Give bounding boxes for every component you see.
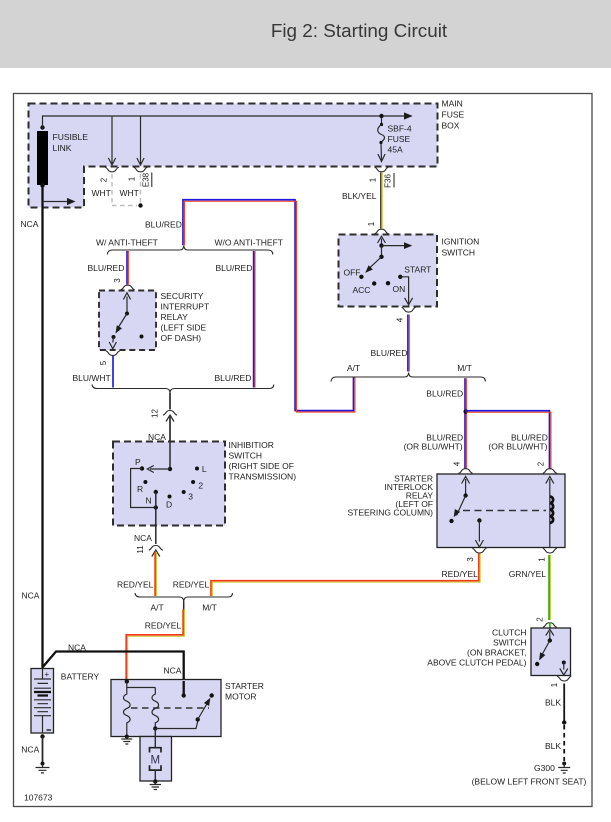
svg-text:ACC: ACC — [353, 285, 371, 295]
inhibitor: D contact — [166, 495, 172, 510]
svg-text:IGNITION: IGNITION — [442, 237, 480, 247]
interlock relay: switch lever — [449, 477, 469, 524]
pin 2 connector (clutch switch top) — [536, 617, 557, 628]
svg-text:GRN/YEL: GRN/YEL — [509, 569, 547, 579]
battery — [31, 669, 100, 734]
svg-text:4: 4 — [396, 317, 405, 322]
wire BLU/RED A/T branch: down, left, up long riser, left, down to anti-theft brace — [145, 200, 355, 412]
wire NCA battery negative — [21, 734, 44, 761]
svg-text:BLU/RED: BLU/RED — [145, 220, 182, 230]
svg-text:F36: F36 — [384, 174, 393, 188]
wire below inhibitor to pin 11 — [134, 526, 156, 545]
svg-text:RED/YEL: RED/YEL — [117, 580, 154, 590]
wire: fusible link to bus bar with right arrow — [43, 112, 413, 127]
svg-text:L: L — [202, 464, 207, 474]
wire BLU/WHT security relay to rejoin brace — [73, 356, 114, 388]
svg-text:2: 2 — [537, 461, 546, 466]
security relay: internal switch — [109, 293, 143, 349]
starter motor: pull-in coil — [124, 679, 156, 736]
ignition: START contact and output to pin 4 — [398, 265, 431, 305]
pin 1 connector (fuse box / E38) — [128, 167, 152, 187]
fuse SBF-4 45A — [378, 118, 412, 162]
ignition: entry arrow up — [378, 236, 386, 248]
svg-text:STARTER: STARTER — [225, 681, 264, 691]
pin 2 connector (interlock relay top) — [537, 461, 557, 473]
svg-text:OFF: OFF — [344, 268, 361, 278]
svg-text:5: 5 — [99, 360, 108, 365]
svg-text:MOTOR: MOTOR — [225, 692, 256, 702]
brace: W/ ANTI-THEFT / W/O ANTI-THEFT split — [96, 238, 283, 255]
wire NCA battery positive (long left riser) — [21, 187, 43, 669]
wire WHT (NCA, dashed gray) pin 1 — [112, 174, 143, 208]
svg-text:ABOVE CLUTCH PEDAL): ABOVE CLUTCH PEDAL) — [427, 658, 526, 668]
wire BLU/RED (OR BLU/WHT) M/T branch to interlock relay pin 4 — [404, 378, 468, 468]
svg-text:1: 1 — [128, 176, 137, 181]
svg-text:OF DASH): OF DASH) — [161, 333, 202, 343]
svg-text:N: N — [146, 496, 152, 506]
svg-text:BLK: BLK — [545, 698, 561, 708]
starter motor: hold coil to motor — [152, 688, 159, 731]
interlock relay: output arrow to pin 3 — [475, 518, 483, 547]
svg-text:RELAY: RELAY — [161, 312, 189, 322]
svg-text:1: 1 — [538, 557, 547, 562]
svg-text:4: 4 — [453, 461, 462, 466]
svg-text:3: 3 — [466, 557, 475, 562]
pin 3 connector (interlock relay bottom) — [466, 548, 486, 561]
node: bus junction at SBF-4 — [379, 114, 383, 118]
main fuse box — [29, 99, 465, 208]
svg-text:RED/YEL: RED/YEL — [442, 569, 479, 579]
svg-text:BLU/WHT: BLU/WHT — [73, 373, 111, 383]
inhibitor: P contact and linkage bracket — [131, 457, 156, 508]
svg-text:SBF-4: SBF-4 — [388, 124, 412, 134]
ignition: feed arrow right — [382, 242, 413, 249]
pin 2 connector (fuse box / E38) — [100, 167, 120, 182]
svg-text:NCA: NCA — [21, 745, 39, 755]
svg-text:FUSE: FUSE — [442, 110, 465, 120]
clutch switch: lever — [535, 629, 554, 666]
pin 3 connector (security relay top) — [113, 278, 135, 290]
svg-text:MAIN: MAIN — [442, 99, 463, 109]
motor M symbol — [150, 748, 162, 781]
ground (starter motor case) — [121, 735, 132, 745]
svg-text:(BELOW LEFT FRONT SEAT): (BELOW LEFT FRONT SEAT) — [472, 777, 587, 787]
ignition: ON contact — [386, 281, 405, 294]
svg-text:+: + — [45, 670, 50, 679]
svg-text:M/T: M/T — [202, 603, 217, 613]
svg-text:107673: 107673 — [24, 793, 53, 803]
svg-text:P: P — [135, 457, 141, 467]
inline connector pin 11 — [136, 545, 163, 557]
svg-text:G300: G300 — [534, 763, 555, 773]
svg-text:CLUTCH: CLUTCH — [492, 628, 526, 638]
starter motor: NCA stub — [182, 681, 186, 698]
inline connector pin 12 — [148, 409, 177, 442]
inhibitor: 2 contact — [191, 480, 203, 491]
inhibitor: N output line — [146, 490, 159, 526]
svg-text:INHIBITIOR: INHIBITIOR — [229, 440, 274, 450]
svg-text:SWITCH: SWITCH — [493, 638, 527, 648]
starter motor — [111, 680, 264, 737]
ground (motor) — [150, 779, 161, 789]
brace: A/T / M/T split under ignition switch — [331, 363, 485, 382]
wire RED/YEL M/T branch to starter interlock relay pin 3 — [173, 554, 480, 597]
svg-text:BLU/RED: BLU/RED — [371, 348, 408, 358]
svg-text:D: D — [166, 500, 172, 510]
pin 4 connector (interlock relay top) — [453, 461, 473, 473]
wire NCA battery to starter motor — [43, 643, 184, 682]
clutch switch — [427, 628, 570, 676]
motor M assembly box — [140, 729, 172, 782]
svg-text:FUSIBLE: FUSIBLE — [53, 132, 89, 142]
svg-text:45A: 45A — [388, 145, 403, 155]
svg-text:1: 1 — [367, 221, 376, 226]
clutch switch: output arrow to pin 1 — [560, 661, 568, 676]
arrow: fusible link output inside fuse box — [43, 198, 76, 205]
svg-text:W/O ANTI-THEFT: W/O ANTI-THEFT — [215, 238, 283, 248]
svg-text:INTERRUPT: INTERRUPT — [161, 302, 210, 312]
svg-text:2: 2 — [198, 481, 203, 491]
interlock relay: coil to pin 1 — [546, 477, 554, 548]
svg-text:BLU/RED: BLU/RED — [88, 263, 125, 273]
svg-text:(RIGHT SIDE OF: (RIGHT SIDE OF — [229, 461, 295, 471]
ground (battery) — [36, 762, 50, 773]
svg-text:BLK/YEL: BLK/YEL — [342, 191, 377, 201]
ignition: OFF contact — [344, 268, 364, 279]
svg-text:3: 3 — [188, 492, 193, 502]
ignition: ACC contact — [353, 281, 377, 295]
inhibitor: 3 contact — [182, 490, 194, 502]
svg-text:WHT: WHT — [120, 188, 139, 198]
security interrupt relay — [99, 291, 209, 351]
svg-text:A/T: A/T — [151, 603, 164, 613]
svg-text:E38: E38 — [142, 172, 151, 187]
brace: A/T / M/T rejoin above starter motor — [135, 593, 233, 613]
svg-text:NCA: NCA — [164, 666, 182, 676]
svg-text:BLK: BLK — [545, 741, 561, 751]
svg-text:1: 1 — [550, 682, 559, 687]
svg-text:LINK: LINK — [53, 143, 72, 153]
brace: anti-theft rejoin — [92, 385, 274, 410]
svg-text:BLU/RED: BLU/RED — [216, 263, 253, 273]
wire BLK dashed to ground — [545, 725, 564, 761]
ignition switch — [339, 235, 480, 307]
wire WHT (NCA, dashed gray) pin 2 — [92, 174, 113, 206]
svg-text:RED/YEL: RED/YEL — [173, 580, 210, 590]
svg-text:SECURITY: SECURITY — [161, 291, 204, 301]
svg-text:R: R — [137, 484, 143, 494]
pin 1 connector F36 (below fuse box) — [369, 167, 395, 188]
svg-text:SWITCH: SWITCH — [442, 248, 476, 258]
svg-text:WHT: WHT — [92, 188, 111, 198]
starter motor: mechanical dashed link — [131, 707, 209, 709]
svg-text:FUSE: FUSE — [388, 134, 411, 144]
svg-text:BLU/RED: BLU/RED — [426, 389, 463, 399]
pin 4 connector (ignition switch bottom) — [396, 307, 416, 322]
wire: drop to connector 2 — [108, 116, 115, 165]
svg-text:A/T: A/T — [347, 363, 360, 373]
header band — [0, 0, 611, 68]
svg-text:2: 2 — [536, 617, 545, 622]
wire: drop to connector 1 (E38) — [137, 116, 144, 165]
wire BLK clutch switch down — [545, 684, 566, 725]
inhibitor: R contact — [137, 480, 147, 494]
interlock relay: mechanical dashed link — [463, 510, 546, 512]
svg-text:NCA: NCA — [22, 591, 40, 601]
wire BLU/RED W/O ANTI-THEFT branch — [215, 251, 256, 388]
fusible link — [37, 125, 88, 187]
svg-text:BOX: BOX — [442, 121, 460, 131]
svg-text:(ON BRACKET,: (ON BRACKET, — [467, 648, 527, 658]
svg-text:NCA: NCA — [21, 219, 39, 229]
inhibitor: entry wire and arrow to P — [147, 442, 172, 473]
svg-text:NCA: NCA — [134, 533, 152, 543]
wire BLU/RED ignition pin4 to A/T-M/T brace — [371, 315, 410, 372]
svg-text:12: 12 — [151, 409, 160, 418]
svg-text:STEERING COLUMN): STEERING COLUMN) — [348, 508, 434, 518]
svg-text:11: 11 — [136, 545, 145, 554]
svg-text:RED/YEL: RED/YEL — [145, 621, 182, 631]
svg-text:NCA: NCA — [68, 643, 86, 653]
svg-text:(OR BLU/WHT): (OR BLU/WHT) — [488, 442, 547, 452]
wire BLK/YEL fuse to ignition switch — [342, 173, 382, 229]
svg-text:SWITCH: SWITCH — [229, 451, 263, 461]
svg-text:BATTERY: BATTERY — [61, 672, 100, 682]
wire RED/YEL inhibitor pin 11 to A/T brace — [117, 552, 157, 596]
svg-text:(LEFT SIDE: (LEFT SIDE — [161, 323, 207, 333]
inhibitor: L contact — [195, 464, 207, 474]
pin 1 connector (interlock relay bottom) — [538, 548, 557, 561]
pin 5 connector (security relay bottom) — [99, 351, 120, 365]
svg-text:(OR BLU/WHT): (OR BLU/WHT) — [404, 442, 463, 452]
pin 1 connector (clutch switch bottom) — [550, 676, 571, 687]
svg-text:M/T: M/T — [457, 363, 472, 373]
inhibitor switch — [113, 440, 296, 526]
ground G300 — [472, 762, 587, 787]
wire RED/YEL brace to starter motor — [126, 610, 184, 682]
wire BLU/RED to security relay pin 3 — [88, 251, 129, 285]
wire GRN/YEL interlock relay to clutch switch — [509, 555, 551, 620]
wire BLU/RED (OR BLU/WHT) branch to interlock relay pin 2 — [465, 411, 551, 469]
svg-text:TRANSMISSION): TRANSMISSION) — [229, 472, 297, 482]
svg-text:3: 3 — [113, 278, 122, 283]
svg-text:2: 2 — [100, 177, 109, 182]
svg-text:ON: ON — [393, 284, 406, 294]
svg-text:START: START — [404, 265, 431, 275]
svg-text:BLU/RED: BLU/RED — [215, 373, 252, 383]
svg-text:M: M — [151, 755, 161, 767]
svg-text:W/ ANTI-THEFT: W/ ANTI-THEFT — [96, 238, 158, 248]
svg-text:1: 1 — [369, 177, 378, 182]
ignition: rotor lever to OFF — [363, 246, 384, 275]
pin 1 connector (ignition switch top) — [367, 221, 389, 234]
starter interlock relay — [348, 474, 565, 548]
starter motor: solenoid switch — [155, 693, 214, 728]
